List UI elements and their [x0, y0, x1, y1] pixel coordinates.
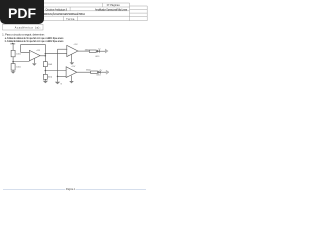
svg-text:+15V: +15V: [9, 41, 18, 43]
wire riser to U2 top input: [58, 48, 67, 50]
LED1: [97, 48, 101, 53]
wire R2 to ground: [12, 70, 14, 71]
node tap1: [45, 53, 46, 54]
wire tap2 bus to U3 top input: [45, 70, 66, 72]
resistor R4: [43, 74, 47, 79]
svg-text:LED1: LED1: [95, 56, 99, 58]
wire node to R2: [12, 62, 14, 64]
wire U1 ground stem: [33, 58, 35, 63]
wire U2 ground stem: [71, 54, 73, 62]
wire feedback left vertical to U1 inverting input: [21, 44, 30, 52]
wire riser to U3 plus input: [58, 75, 67, 77]
header table borders: [3, 3, 148, 21]
wire R4 to ground: [44, 79, 46, 81]
wire U1 output: [40, 55, 45, 57]
resistor R3: [43, 62, 47, 67]
question text lines: [2, 34, 64, 43]
svg-text:Vi: Vi: [60, 83, 62, 85]
svg-text:10kΩ: 10kΩ: [48, 64, 53, 66]
wire Vi riser vertical: [57, 49, 59, 82]
node riser to U3: [57, 76, 59, 78]
resistor R5: [89, 50, 96, 52]
resistor R6: [91, 71, 98, 73]
wire node to U1 + input: [13, 61, 29, 63]
svg-text:-: -: [67, 49, 68, 51]
wire feedback top rail: [21, 43, 46, 45]
ground under divider: [43, 81, 48, 83]
svg-text:330Ω: 330Ω: [86, 69, 91, 71]
svg-text:Nº Páginas: Nº Páginas: [107, 3, 121, 7]
ground sideways after LED1: [105, 49, 107, 53]
svg-text:Amplificador Operacional Não L: Amplificador Operacional Não Linear: [95, 8, 127, 11]
node divider tap: [12, 61, 14, 63]
svg-text:Circuitos Analógicos II: Circuitos Analógicos II: [46, 8, 68, 11]
svg-text:10kΩ: 10kΩ: [16, 66, 21, 68]
svg-text:-: -: [67, 69, 68, 71]
wire R3 to R4: [44, 67, 46, 75]
wire R1 to node: [12, 57, 14, 62]
op-amp U3: [66, 67, 77, 78]
ground under U1: [32, 63, 37, 65]
ground under R2: [11, 71, 16, 73]
ground symbols (filled triangles): [11, 62, 75, 84]
op-amp U1: [29, 50, 40, 60]
wire bus to R3: [44, 56, 46, 62]
svg-text:+15V: +15V: [36, 50, 41, 52]
wire LED1 to ground: [99, 50, 105, 52]
wire U3 ground stem: [70, 76, 72, 81]
svg-text:+15V: +15V: [71, 66, 76, 68]
svg-text:GRADUAÇÃO EM ENGENHARIA ELÉTRI: GRADUAÇÃO EM ENGENHARIA ELÉTRICA: [42, 13, 85, 16]
resistor R1: [11, 50, 15, 57]
ground under riser (Vi): [55, 82, 60, 84]
wire R5 to LED1: [95, 50, 98, 52]
op-amp +/- marks and labels: [9, 41, 101, 86]
wire R6 to LED2: [97, 71, 100, 73]
ground sideways after LED2: [106, 70, 108, 74]
svg-text:-: -: [30, 52, 31, 54]
ground under U3: [69, 81, 74, 83]
footer line: [3, 189, 146, 191]
svg-text:330Ω: 330Ω: [85, 50, 90, 52]
academico row: [3, 24, 44, 30]
header table text: [42, 3, 127, 21]
resistor R2: [11, 64, 15, 71]
wire tap1 bus to U2 inverting input: [45, 53, 67, 55]
svg-text:10kΩ: 10kΩ: [48, 77, 53, 79]
node tap2: [45, 70, 47, 72]
PDF badge overlay: [0, 0, 44, 24]
wire U3 output: [77, 71, 91, 73]
svg-text:Turma: Turma: [66, 18, 75, 21]
svg-text:+15V: +15V: [74, 44, 79, 46]
junction dots: [12, 53, 58, 77]
wire U2 output: [78, 50, 89, 52]
svg-text:Acadêmico (a):: Acadêmico (a):: [15, 27, 41, 30]
wire bus top vertical: [44, 44, 46, 55]
wire LED2 to ground: [101, 71, 107, 73]
wire supply to R1: [12, 44, 14, 50]
LED2: [98, 69, 102, 73]
svg-text:10kΩ: 10kΩ: [16, 53, 21, 55]
svg-text:Página 1: Página 1: [66, 189, 76, 191]
node U1 output on bus: [45, 55, 47, 57]
op-amp U2: [67, 45, 78, 56]
+15V supply symbol: [10, 43, 15, 44]
svg-text:LED2: LED2: [97, 75, 101, 77]
ground under U2: [70, 62, 75, 64]
